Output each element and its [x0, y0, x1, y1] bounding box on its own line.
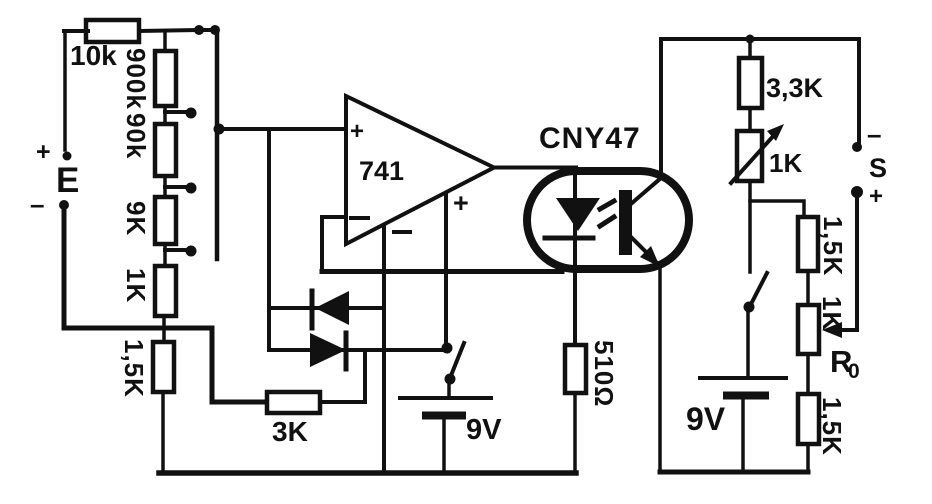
- svg-text:1,5K: 1,5K: [119, 339, 149, 398]
- wire wiper from S+: [843, 197, 857, 330]
- photon arrow 2: [600, 217, 614, 226]
- wire battery to ground right: [741, 399, 745, 472]
- wire op-amp + input: [217, 127, 346, 131]
- svg-text:510Ω: 510Ω: [589, 340, 619, 407]
- wire 900k top drop: [163, 31, 167, 51]
- wire LED anode: [573, 168, 577, 345]
- junction dot: [194, 25, 204, 35]
- wire V+ supply line: [444, 193, 448, 348]
- svg-text:741: 741: [359, 156, 404, 186]
- wiper arrowhead: [822, 322, 842, 338]
- resistor 510: [565, 345, 586, 393]
- svg-text:0: 0: [848, 360, 860, 383]
- wire ground bus left: [159, 470, 576, 476]
- diode D1 bar: [310, 291, 315, 328]
- wire tap1 stub: [165, 110, 187, 114]
- node E+ terminal dot: [63, 152, 72, 161]
- node E- terminal dot: [59, 200, 69, 210]
- label V- minus: [394, 230, 410, 234]
- wire collector up: [659, 39, 663, 178]
- wire to 3,3K: [748, 39, 752, 58]
- resistor 1,5K right bottom: [798, 394, 819, 444]
- svg-text:10k: 10k: [70, 40, 117, 71]
- switch right arm: [750, 273, 767, 306]
- wire chain: [806, 271, 810, 305]
- wire selector bus: [215, 29, 220, 259]
- wire branch to right chain: [750, 201, 804, 217]
- wire feedback vertical to diodes: [267, 129, 271, 350]
- resistor 900k: [155, 51, 176, 106]
- wire ground bus right: [660, 470, 808, 475]
- svg-text:3K: 3K: [272, 416, 308, 447]
- wire pivot to battery: [746, 307, 750, 376]
- photon arrow 1: [600, 201, 614, 209]
- svg-text:1K: 1K: [817, 296, 847, 331]
- svg-text:1K: 1K: [769, 148, 802, 178]
- wire - input down: [320, 217, 324, 271]
- svg-text:+: +: [36, 138, 51, 166]
- svg-text:9K: 9K: [121, 201, 151, 236]
- wire tap3 stub: [165, 248, 187, 252]
- wire diode1 row: [269, 306, 384, 310]
- wire pot down to switch: [748, 181, 752, 272]
- wire 90k-9K: [163, 176, 167, 197]
- wire chain: [806, 354, 810, 394]
- resistor 1K left: [155, 266, 176, 316]
- node switch fixed contact: [442, 343, 453, 354]
- phototransistor emitter: [632, 238, 656, 262]
- wire V- supply line: [382, 226, 386, 473]
- svg-text:1K: 1K: [121, 268, 151, 303]
- wire 900k-90k: [163, 106, 167, 124]
- svg-text:S: S: [869, 153, 887, 183]
- resistor 1,5K left: [153, 342, 174, 392]
- svg-text:CNY47: CNY47: [539, 122, 641, 155]
- resistor 1,5K right top: [798, 217, 818, 271]
- wire op-amp output: [494, 166, 576, 170]
- junction dot: [210, 25, 220, 35]
- wire top bus right: [661, 39, 859, 142]
- node S minus dot: [852, 142, 862, 152]
- wire E+ top: [64, 29, 88, 33]
- svg-text:900k: 900k: [121, 48, 151, 110]
- diode D1 (points left): [315, 291, 349, 325]
- node tap1 dot: [186, 108, 197, 119]
- resistor 9K: [155, 197, 176, 244]
- svg-text:1,5K: 1,5K: [817, 397, 847, 456]
- potentiometer 1K: [737, 131, 762, 181]
- battery B1 plus plate: [400, 396, 491, 400]
- wire chain to ground: [806, 444, 810, 472]
- wire 3,3K-1K: [748, 108, 752, 131]
- wire 510 to ground: [573, 393, 577, 473]
- resistor 90k: [155, 124, 176, 176]
- wire 1,5K to ground bus: [161, 392, 165, 473]
- resistor 1K right: [798, 305, 819, 354]
- svg-text:+: +: [453, 188, 469, 218]
- wire 1K-1,5K: [162, 316, 166, 342]
- optocoupler U2 body: [527, 171, 689, 269]
- svg-text:9V: 9V: [466, 414, 502, 446]
- phototransistor base bar: [619, 190, 632, 255]
- diode D2 bar: [344, 333, 349, 369]
- battery B2 minus plate: [727, 392, 765, 400]
- diode D2 (points right): [310, 333, 346, 367]
- battery B2 plus plate: [700, 376, 786, 380]
- wire - input stub: [322, 215, 346, 219]
- op-amp U1 741 triangle: [346, 96, 494, 244]
- wire 3K right leg: [320, 350, 365, 402]
- LED in optocoupler: [556, 198, 600, 231]
- wire diode2 row: [269, 348, 447, 352]
- wire switch to battery: [447, 379, 451, 397]
- node switch pivot: [445, 374, 456, 385]
- svg-text:9V: 9V: [686, 401, 726, 437]
- label opamp - input: [351, 216, 368, 220]
- svg-text:–: –: [30, 189, 44, 219]
- wire tap2 stub: [165, 185, 187, 189]
- svg-text:+: +: [869, 183, 883, 210]
- wire E+ vertical: [63, 31, 67, 150]
- resistor 3K: [267, 392, 320, 413]
- resistor 10k: [86, 20, 139, 42]
- svg-text:3,3K: 3,3K: [766, 73, 824, 103]
- switch arm middle: [450, 343, 464, 378]
- wire battery to ground: [442, 419, 446, 473]
- wire E- down and across to 3K: [64, 207, 266, 402]
- node tap2 dot: [186, 183, 197, 194]
- node bus to op-amp junction: [214, 124, 225, 135]
- svg-text:–: –: [867, 119, 881, 149]
- emitter arrowhead: [640, 246, 660, 267]
- svg-text:1,5K: 1,5K: [818, 216, 848, 277]
- wire - input bus: [322, 269, 562, 274]
- wire top to bus: [139, 30, 217, 31]
- LED cathode bar: [545, 236, 593, 241]
- node S plus dot: [851, 186, 863, 198]
- svg-text:+: +: [350, 118, 364, 145]
- node 3,3K branch: [746, 35, 755, 44]
- svg-text:E: E: [56, 161, 79, 200]
- node right switch pivot: [744, 302, 755, 313]
- resistor 3,3K: [739, 58, 762, 108]
- svg-text:90k: 90k: [121, 113, 151, 159]
- pot arrowhead: [767, 124, 784, 141]
- battery B1 minus plate: [426, 412, 462, 420]
- phototransistor collector: [632, 178, 661, 203]
- node tap3 dot: [186, 246, 197, 257]
- wire 9K-1K: [163, 244, 167, 266]
- wire emitter down: [658, 264, 662, 472]
- pot arrow: [731, 133, 776, 183]
